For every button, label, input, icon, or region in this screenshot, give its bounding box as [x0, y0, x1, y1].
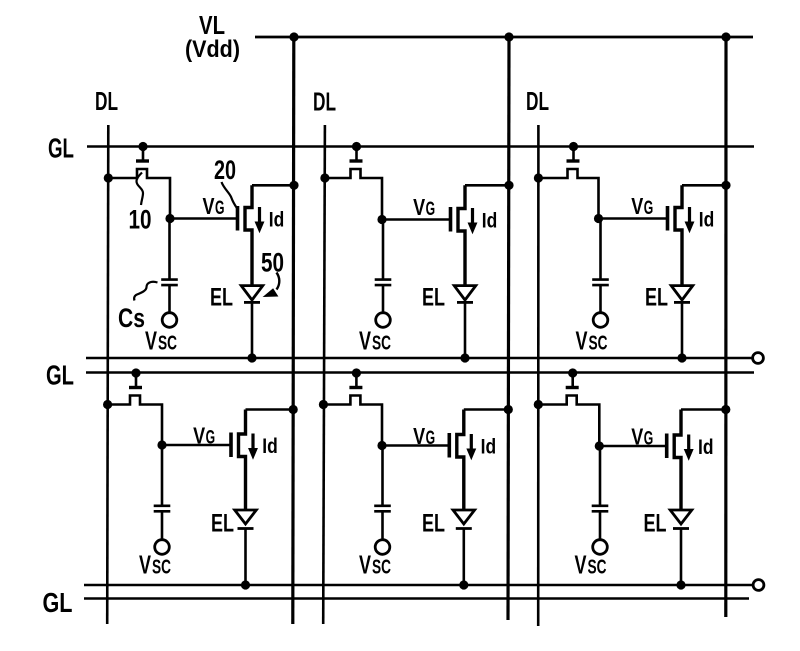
junction cathode line row2 col1 — [241, 580, 250, 589]
label VG row1 col3 — [631, 193, 653, 219]
data line DL1 — [107, 125, 108, 624]
wire capacitor to VSC terminal row1 col2 — [382, 285, 385, 313]
svg-text:G: G — [206, 428, 216, 449]
wire VG node to capacitor row1 col3 — [599, 219, 602, 280]
capacitor Cs row1 col1 — [161, 280, 178, 286]
wire EL cathode to cathode line row1 col1 — [251, 302, 254, 358]
transistor drive TFT row1 col1 gate bar — [236, 206, 240, 231]
junction VL rail - VL3 — [721, 32, 730, 41]
node VG row2 col2 — [377, 441, 386, 450]
wire capacitor to VSC terminal row2 col3 — [599, 511, 602, 539]
transistor switch TFT row1 col1 gate bar — [136, 159, 149, 162]
transistor drive TFT row2 col1 body and leads — [239, 410, 246, 511]
terminal VSC circle row1 col2 — [376, 313, 391, 328]
wire EL cathode to cathode line row2 col1 — [244, 529, 247, 586]
node VG row1 col3 — [594, 214, 603, 223]
junction cathode line row2 col3 — [676, 580, 685, 589]
junction drain - VL row2 col3 — [721, 405, 730, 414]
transistor switch TFT row2 col1 gate bar — [129, 386, 142, 389]
svg-text:20: 20 — [214, 155, 236, 185]
data line DL3 — [537, 125, 540, 626]
junction VL rail - VL2 — [504, 32, 513, 41]
label VG row2 col3 — [631, 424, 653, 450]
leader line 20 — [222, 182, 238, 209]
svg-text:50: 50 — [261, 248, 284, 278]
label Id row2 col2 — [481, 436, 497, 459]
junction data line row1 col2 — [320, 173, 329, 182]
current arrow Id row2 col1 — [249, 434, 257, 459]
transistor drive TFT row1 col2 gate bar — [449, 207, 453, 232]
label (Vdd) — [185, 36, 240, 63]
junction data line row1 col1 — [104, 173, 113, 182]
terminal VSC circle row2 col2 — [375, 540, 390, 555]
svg-text:Id: Id — [481, 436, 497, 459]
label GL row3 — [43, 587, 73, 618]
junction drain - VL row1 col2 — [504, 181, 513, 190]
terminal circle row2 cathode line — [753, 580, 764, 591]
transistor switch TFT row1 col3 channel — [538, 169, 598, 219]
transistor switch TFT row2 col3 gate bar — [566, 386, 579, 389]
terminal VSC circle row1 col1 — [162, 313, 177, 328]
transistor switch TFT row2 col3 channel — [538, 396, 599, 447]
current arrow Id row2 col2 — [467, 434, 475, 459]
junction data line row1 col3 — [534, 173, 543, 182]
node gate-line junction row2 col2 — [352, 368, 361, 377]
label Id row1 col3 — [699, 209, 715, 232]
transistor drive TFT row1 col3 body and leads — [675, 185, 682, 285]
power line VL3 vertical — [724, 37, 727, 617]
node gate-line junction row1 col1 — [138, 142, 147, 151]
svg-text:GL: GL — [46, 360, 74, 391]
capacitor Cs row1 col3 — [592, 280, 609, 286]
wire VG node to drive gate row1 col1 — [170, 217, 237, 220]
transistor switch TFT row1 col2 gate stub — [355, 147, 358, 160]
terminal VSC circle row1 col3 — [593, 313, 608, 328]
transistor drive TFT row2 col2 body and leads — [457, 410, 464, 511]
label VL — [199, 10, 225, 40]
junction cathode line row1 col2 — [460, 353, 469, 362]
junction drain - VL row2 col1 — [289, 405, 298, 414]
junction VL rail - VL1 — [289, 32, 298, 41]
label Cs capacitor designator — [118, 303, 145, 333]
label GL row1 — [48, 133, 74, 164]
svg-text:Cs: Cs — [118, 303, 145, 333]
terminal circle row1 cathode line — [753, 353, 764, 364]
svg-text:G: G — [426, 428, 436, 449]
node gate-line junction row2 col1 — [131, 368, 140, 377]
cathode line row1 — [86, 357, 753, 360]
power line VL2 vertical — [508, 37, 509, 620]
svg-text:DL: DL — [313, 87, 336, 117]
diode EL row2 col3 triangle — [670, 510, 692, 524]
svg-text:EL: EL — [210, 284, 233, 312]
wire VG node to drive gate row2 col2 — [382, 444, 448, 447]
current arrow Id row1 col2 — [468, 208, 476, 233]
junction drain - VL row2 col2 — [504, 405, 513, 414]
label EL row2 col2 — [422, 510, 445, 538]
diode EL row2 col1 cathode bar — [238, 527, 254, 530]
wire drain to VL row2 col3 — [681, 408, 726, 411]
junction data line row2 col2 — [319, 400, 328, 409]
junction cathode line row1 col1 — [247, 353, 256, 362]
junction data line row2 col3 — [534, 400, 543, 409]
label Id row1 col1 — [269, 209, 285, 232]
label DL col3 — [526, 86, 549, 116]
label EL row1 col1 — [210, 284, 233, 312]
label VG row1 col1 — [203, 193, 225, 219]
svg-text:G: G — [644, 198, 654, 219]
label Id row2 col1 — [262, 435, 278, 458]
junction data line row2 col1 — [103, 400, 112, 409]
terminal VSC circle row2 col1 — [155, 540, 170, 555]
diode EL row1 col1 triangle — [241, 286, 263, 300]
svg-text:SC: SC — [152, 557, 171, 579]
label VSC row2 col2 — [359, 550, 391, 580]
transistor switch TFT row2 col3 gate stub — [571, 373, 574, 386]
svg-text:V: V — [359, 326, 371, 356]
transistor switch TFT row2 col2 channel — [323, 396, 382, 446]
transistor switch TFT row1 col1 gate stub — [142, 147, 145, 160]
svg-text:Id: Id — [482, 210, 498, 233]
wire EL cathode to cathode line row1 col2 — [464, 302, 467, 358]
svg-text:G: G — [426, 199, 436, 220]
label VG row1 col2 — [413, 194, 435, 220]
wire EL cathode to cathode line row2 col3 — [680, 529, 683, 586]
leader line 10 — [137, 173, 143, 206]
wire VG node to capacitor row2 col2 — [381, 446, 384, 506]
wire VG node to capacitor row1 col2 — [382, 220, 385, 280]
svg-text:V: V — [193, 423, 206, 449]
junction drain - VL row1 col1 — [289, 181, 298, 190]
gate line GL1 — [87, 145, 754, 148]
wire EL cathode to cathode line row2 col2 — [462, 529, 465, 586]
node gate-line junction row1 col3 — [569, 142, 578, 151]
svg-text:V: V — [413, 194, 426, 220]
node gate-line junction row2 col3 — [568, 368, 577, 377]
label EL row1 col3 — [645, 284, 668, 312]
svg-text:DL: DL — [526, 86, 549, 116]
transistor switch TFT row1 col2 channel — [325, 169, 382, 220]
transistor drive TFT row2 col3 gate bar — [665, 434, 669, 459]
label 20 drive TFT designator — [214, 155, 236, 185]
label VG row2 col2 — [413, 423, 435, 449]
leader line Cs — [134, 282, 157, 301]
diode EL row1 col2 cathode bar — [457, 301, 473, 304]
node VG row2 col3 — [595, 441, 604, 450]
diode EL row2 col2 triangle — [453, 510, 475, 524]
svg-text:SC: SC — [158, 333, 177, 355]
cathode line row2 — [84, 584, 753, 587]
current arrow Id row1 col1 — [255, 207, 263, 232]
svg-text:V: V — [631, 424, 644, 450]
svg-text:SC: SC — [372, 557, 391, 579]
diode EL row1 col1 cathode bar — [244, 301, 260, 304]
junction cathode line row1 col3 — [677, 353, 686, 362]
svg-text:EL: EL — [422, 510, 445, 538]
label 10 switch TFT designator — [129, 205, 152, 235]
transistor drive TFT row1 col2 body and leads — [458, 185, 465, 285]
diode EL row2 col1 triangle — [235, 510, 257, 524]
label 50 EL designator — [261, 248, 284, 278]
gate line GL3 — [84, 597, 749, 600]
svg-text:DL: DL — [95, 86, 118, 116]
svg-text:Id: Id — [698, 436, 714, 459]
wire EL cathode to cathode line row1 col3 — [681, 302, 684, 358]
svg-text:SC: SC — [589, 333, 608, 355]
gate line GL2 — [86, 371, 754, 374]
transistor switch TFT row2 col1 channel — [108, 396, 162, 446]
transistor switch TFT row2 col1 gate stub — [135, 373, 138, 386]
svg-text:SC: SC — [588, 557, 607, 579]
transistor drive TFT row1 col3 gate bar — [666, 206, 670, 231]
svg-text:10: 10 — [129, 205, 152, 235]
node gate-line junction row1 col2 — [352, 142, 361, 151]
node VG row2 col1 — [157, 440, 166, 449]
svg-text:V: V — [575, 550, 587, 580]
label DL col2 — [313, 87, 336, 117]
wire VG node to drive gate row1 col2 — [382, 218, 450, 221]
wire capacitor to VSC terminal row2 col1 — [161, 511, 164, 539]
diode EL row2 col3 cathode bar — [673, 527, 689, 530]
svg-text:EL: EL — [645, 284, 668, 312]
svg-text:V: V — [139, 550, 151, 580]
label VSC row1 col2 — [359, 326, 391, 356]
wire VG node to drive gate row2 col3 — [599, 445, 665, 448]
svg-text:(Vdd): (Vdd) — [185, 36, 240, 63]
svg-text:EL: EL — [422, 284, 445, 312]
label VSC row2 col1 — [139, 550, 171, 580]
label EL row2 col3 — [644, 510, 667, 538]
current arrow Id row2 col3 — [685, 435, 693, 460]
current arrow Id row1 col3 — [685, 207, 693, 232]
label GL row2 — [46, 360, 74, 391]
terminal VSC circle row2 col3 — [593, 540, 608, 555]
diode EL row1 col2 triangle — [454, 286, 476, 300]
label EL row2 col1 — [211, 510, 234, 538]
wire capacitor to VSC terminal row2 col2 — [381, 511, 384, 539]
power line VL1 vertical — [293, 37, 294, 624]
svg-text:G: G — [644, 429, 654, 450]
svg-text:V: V — [145, 326, 157, 356]
label Id row1 col2 — [482, 210, 498, 233]
junction cathode line row2 col2 — [459, 580, 468, 589]
transistor switch TFT row2 col2 gate stub — [355, 373, 358, 386]
transistor drive TFT row2 col3 body and leads — [674, 410, 681, 511]
label Id row2 col3 — [698, 436, 714, 459]
wire VG node to capacitor row2 col1 — [161, 445, 164, 506]
wire capacitor to VSC terminal row1 col1 — [168, 285, 171, 313]
transistor switch TFT row1 col3 gate stub — [572, 147, 575, 160]
capacitor Cs row2 col1 — [154, 506, 171, 512]
svg-text:GL: GL — [48, 133, 74, 164]
wire VG node to drive gate row2 col1 — [162, 444, 230, 447]
power rail VL (Vdd) horizontal — [255, 36, 753, 39]
capacitor Cs row1 col2 — [375, 280, 392, 286]
label VSC row1 col3 — [576, 326, 608, 356]
svg-text:V: V — [203, 193, 216, 219]
label EL row1 col2 — [422, 284, 445, 312]
diode EL row1 col3 cathode bar — [674, 301, 690, 304]
label DL col1 — [95, 86, 118, 116]
diode EL row2 col2 cathode bar — [456, 527, 472, 530]
svg-text:Id: Id — [269, 209, 285, 232]
label VG row2 col1 — [193, 423, 215, 449]
transistor switch TFT row2 col2 gate bar — [349, 386, 362, 389]
transistor switch TFT row1 col3 gate bar — [567, 159, 580, 162]
svg-text:EL: EL — [644, 510, 667, 538]
wire VG node to capacitor row1 col1 — [168, 219, 171, 280]
transistor drive TFT row2 col2 gate bar — [447, 433, 451, 458]
wire VG node to drive gate row1 col3 — [599, 217, 667, 220]
wire drain to VL row2 col1 — [246, 408, 294, 411]
label VSC row1 col1 — [145, 326, 177, 356]
capacitor Cs row2 col2 — [374, 506, 391, 512]
svg-text:V: V — [631, 193, 644, 219]
wire drain to VL row1 col3 — [682, 184, 726, 187]
diode EL row1 col3 triangle — [671, 286, 693, 300]
label VSC row2 col3 — [575, 550, 607, 580]
svg-text:V: V — [413, 423, 426, 449]
capacitor Cs row2 col3 — [592, 506, 609, 512]
transistor switch TFT row1 col2 gate bar — [350, 159, 363, 162]
svg-text:EL: EL — [211, 510, 234, 538]
wire drain to VL row2 col2 — [464, 408, 509, 411]
wire VG node to capacitor row2 col3 — [599, 446, 602, 506]
svg-text:V: V — [576, 326, 588, 356]
wire capacitor to VSC terminal row1 col3 — [599, 285, 602, 313]
svg-text:G: G — [215, 198, 225, 219]
svg-text:SC: SC — [372, 333, 391, 355]
transistor drive TFT row2 col1 gate bar — [229, 433, 233, 458]
svg-text:V: V — [359, 550, 371, 580]
wire drain to VL row1 col1 — [252, 184, 294, 187]
data line DL2 — [323, 125, 325, 624]
node VG row1 col1 — [165, 214, 174, 223]
junction drain - VL row1 col3 — [721, 181, 730, 190]
wire drain to VL row1 col2 — [465, 184, 509, 187]
svg-text:GL: GL — [43, 587, 73, 618]
transistor switch TFT row1 col1 channel — [108, 169, 170, 219]
svg-text:Id: Id — [262, 435, 278, 458]
leader arrow 50 — [264, 273, 279, 297]
node VG row1 col2 — [377, 215, 386, 224]
transistor drive TFT row1 col1 body and leads — [245, 185, 252, 285]
svg-text:Id: Id — [699, 209, 715, 232]
